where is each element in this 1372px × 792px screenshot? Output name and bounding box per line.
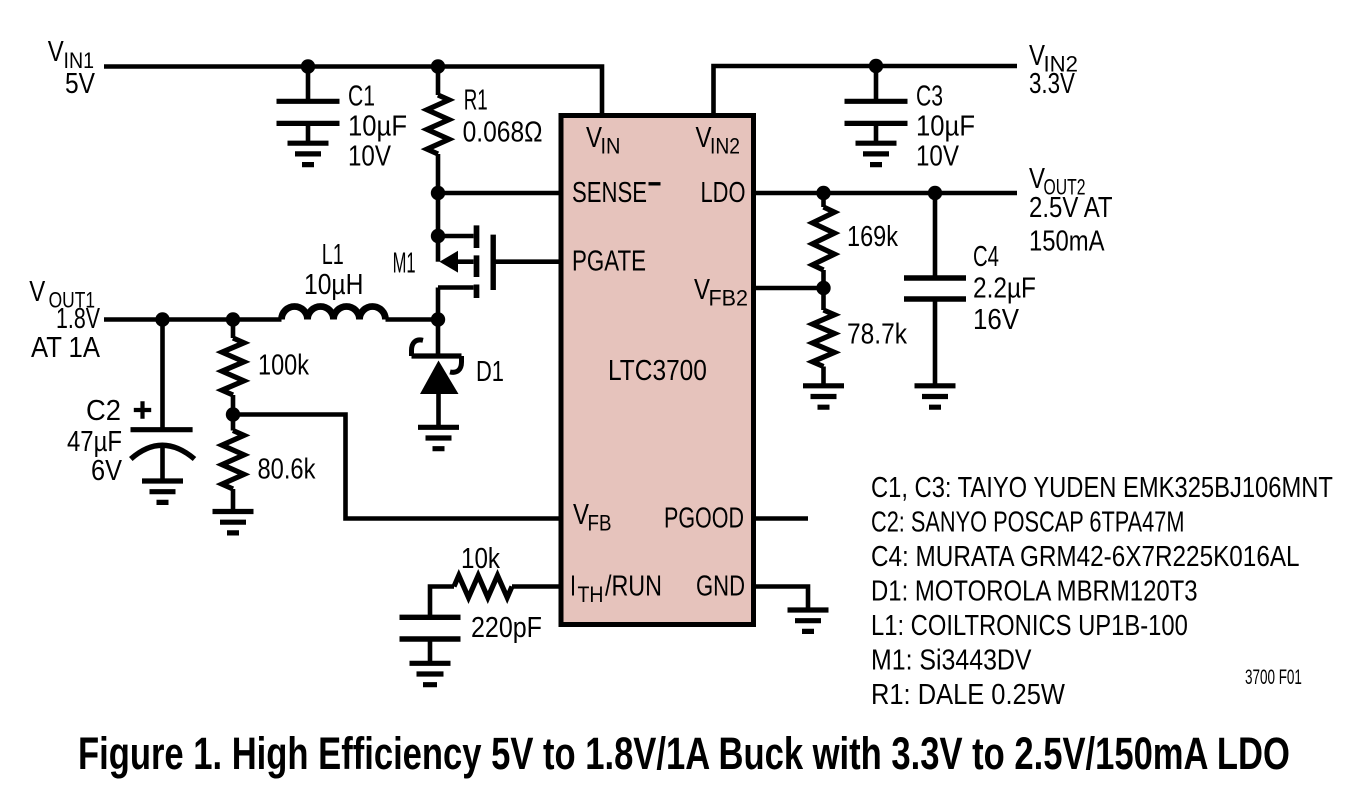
svg-text:PGOOD: PGOOD <box>664 503 744 535</box>
svg-text:V: V <box>1029 162 1045 195</box>
svg-text:220pF: 220pF <box>471 610 542 643</box>
svg-text:C4: C4 <box>973 241 999 273</box>
svg-text:10V: 10V <box>348 139 391 172</box>
svg-text:10V: 10V <box>916 139 959 172</box>
svg-text:I: I <box>570 571 576 603</box>
svg-text:78.7k: 78.7k <box>847 318 907 350</box>
svg-text:LTC3700: LTC3700 <box>608 354 707 386</box>
svg-text:C4: MURATA GRM42-6X7R225K016AL: C4: MURATA GRM42-6X7R225K016AL <box>871 540 1300 573</box>
svg-text:100k: 100k <box>258 348 310 381</box>
svg-text:PGATE: PGATE <box>572 246 646 277</box>
svg-text:10k: 10k <box>461 542 501 575</box>
svg-text:M1: Si3443DV: M1: Si3443DV <box>871 644 1032 676</box>
svg-text:C1, C3: TAIYO YUDEN EMK325BJ10: C1, C3: TAIYO YUDEN EMK325BJ106MNT <box>871 471 1333 504</box>
svg-text:IN: IN <box>601 133 621 158</box>
svg-text:FB2: FB2 <box>709 285 749 311</box>
svg-text:16V: 16V <box>973 303 1020 336</box>
svg-text:150mA: 150mA <box>1029 224 1105 257</box>
svg-text:IN2: IN2 <box>710 134 740 159</box>
svg-text:L1: L1 <box>322 239 344 271</box>
svg-text:R1: R1 <box>464 85 488 117</box>
svg-text:6V: 6V <box>91 453 123 486</box>
svg-text:C2: SANYO POSCAP 6TPA47M: C2: SANYO POSCAP 6TPA47M <box>871 507 1184 539</box>
svg-text:169k: 169k <box>847 220 899 253</box>
svg-text:V: V <box>29 275 45 308</box>
svg-text:C1: C1 <box>348 80 375 112</box>
svg-text:TH: TH <box>578 583 604 608</box>
svg-text:/RUN: /RUN <box>605 569 662 602</box>
svg-text:FB: FB <box>588 511 612 536</box>
svg-text:V: V <box>48 35 64 68</box>
svg-text:LDO: LDO <box>701 177 746 209</box>
svg-text:10µF: 10µF <box>348 109 407 142</box>
svg-text:R1: DALE 0.25W: R1: DALE 0.25W <box>871 677 1065 710</box>
svg-text:D1: D1 <box>476 356 504 388</box>
svg-text:M1: M1 <box>393 248 416 280</box>
svg-text:Figure 1. High Efficiency 5V t: Figure 1. High Efficiency 5V to 1.8V/1A … <box>78 729 1290 779</box>
svg-text:10µF: 10µF <box>916 109 975 142</box>
svg-text:3700 F01: 3700 F01 <box>1245 665 1302 689</box>
svg-text:5V: 5V <box>65 67 95 99</box>
svg-text:AT 1A: AT 1A <box>31 331 101 364</box>
svg-text:0.068Ω: 0.068Ω <box>463 116 543 148</box>
svg-text:3.3V: 3.3V <box>1029 68 1076 99</box>
svg-text:2.5V AT: 2.5V AT <box>1029 191 1113 224</box>
svg-text:SENSE: SENSE <box>572 177 647 208</box>
svg-text:L1: COILTRONICS UP1B-100: L1: COILTRONICS UP1B-100 <box>871 609 1188 642</box>
svg-text:D1: MOTOROLA MBRM120T3: D1: MOTOROLA MBRM120T3 <box>871 574 1198 607</box>
svg-text:10µH: 10µH <box>304 268 363 300</box>
svg-text:2.2µF: 2.2µF <box>973 272 1036 304</box>
svg-text:C3: C3 <box>916 80 943 112</box>
svg-text:GND: GND <box>696 571 745 603</box>
svg-text:C2: C2 <box>86 393 121 426</box>
svg-text:80.6k: 80.6k <box>258 452 317 485</box>
